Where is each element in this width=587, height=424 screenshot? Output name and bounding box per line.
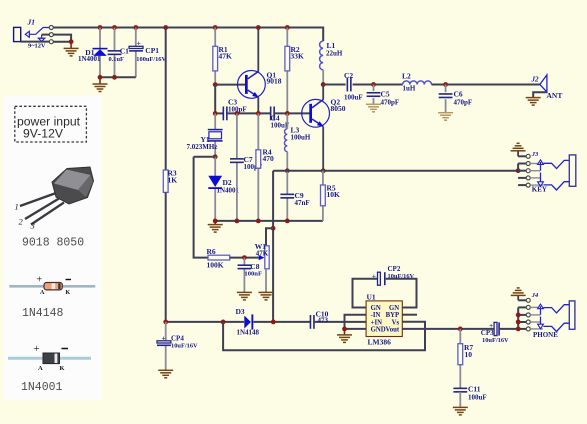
svg-text:100uH: 100uH (291, 134, 311, 142)
svg-text:10uF/16V: 10uF/16V (171, 343, 198, 350)
svg-text:+: + (37, 275, 43, 286)
junction J4 pin3 (516, 313, 521, 318)
connector J1 pin 2 (49, 33, 53, 37)
svg-text:J4: J4 (531, 292, 539, 299)
resistor R5 pins (322, 171, 324, 221)
wire ground stub U1 (344, 329, 346, 335)
wire J1 sleeve (21, 41, 50, 43)
ground at J3 (511, 143, 526, 151)
svg-text:1N4001: 1N4001 (21, 381, 63, 394)
wire BYP stub (402, 314, 417, 316)
svg-text:J3: J3 (531, 151, 539, 158)
svg-text:9V-12V: 9V-12V (23, 127, 64, 141)
wire W1 top to tap (266, 228, 273, 246)
ground at C8 (237, 292, 252, 300)
diode D2 (208, 176, 222, 189)
wire GND pin (345, 328, 367, 330)
resistor R4 pins (257, 113, 259, 220)
junction R2 L3 (285, 111, 290, 116)
svg-text:473: 473 (318, 316, 329, 324)
svg-text:3: 3 (30, 221, 35, 231)
capacitor C1 (108, 51, 122, 55)
svg-text:9018: 9018 (267, 77, 282, 86)
connector J3 pin 3 (526, 169, 530, 173)
wire J1 pin2 stub (42, 34, 50, 36)
capacitor C9 (280, 194, 294, 198)
wire C2 to L2 (353, 84, 403, 86)
svg-text:47K: 47K (219, 52, 233, 61)
wire C10 to +IN (314, 321, 366, 323)
capacitor CP4 pins (165, 322, 167, 370)
svg-text:100uF/16V: 100uF/16V (136, 56, 166, 63)
svg-text:470pF: 470pF (381, 99, 400, 107)
svg-text:1uH: 1uH (403, 85, 416, 93)
polarity - 1N4001 (62, 348, 69, 350)
ground at antenna (526, 98, 541, 106)
connector J1 pin 1 (49, 26, 53, 30)
op-amp U1 LM386 body (366, 301, 402, 337)
svg-text:100nF: 100nF (244, 270, 262, 277)
capacitor C11 (453, 388, 467, 392)
wire C3 to C4 (228, 112, 270, 114)
crystal Y1 pins (214, 113, 216, 156)
connector J3 pin 5 (526, 183, 530, 187)
svg-text:C6: C6 (454, 90, 463, 99)
wire ground stub (70, 42, 72, 49)
connector J4 pin 3 (526, 313, 530, 317)
connector J3 pin 4 (526, 176, 530, 180)
junction C8 W1 wiper (242, 255, 247, 260)
svg-text:PHONE: PHONE (533, 331, 558, 339)
inductor L1 bottom pin (322, 70, 324, 85)
svg-text:10uF/16V: 10uF/16V (388, 273, 415, 280)
resistor R4 (256, 150, 261, 168)
junction L1 C2 Q2 collector (321, 82, 326, 87)
svg-text:470: 470 (263, 154, 275, 163)
diode D2 pins (214, 157, 216, 221)
junction C7 bottom (235, 219, 240, 224)
transistor Q2 collector pin (322, 85, 324, 100)
wire VCC to R3 (165, 28, 167, 171)
capacitor C1 pins (114, 28, 116, 78)
junction J4 pin4 (516, 320, 521, 325)
junction top rail D1 (98, 25, 103, 30)
svg-text:10uF/16V: 10uF/16V (482, 337, 509, 344)
svg-text:7.023MHz: 7.023MHz (187, 143, 218, 151)
connector J3 ground wire (517, 151, 519, 156)
wire CP2 to GN8 (386, 279, 417, 308)
ground at J1 (64, 48, 79, 56)
inductor L2 (403, 81, 432, 85)
capacitor C11 bottom pin (459, 392, 461, 407)
junction top rail C1 (112, 25, 117, 30)
svg-text:-IN: -IN (371, 312, 381, 319)
transistor Q2 emitter pin (322, 127, 324, 171)
svg-text:Vs: Vs (392, 319, 400, 326)
svg-text:100uF: 100uF (344, 94, 363, 102)
wire J4 pin1 stub (518, 299, 526, 301)
capacitor C8 pins (243, 258, 245, 293)
svg-text:10: 10 (465, 350, 473, 359)
capacitor C2 (347, 78, 351, 92)
ground at C5 (366, 104, 381, 112)
svg-text:1N4001: 1N4001 (78, 55, 101, 63)
wire R3 to audio rail (165, 192, 167, 322)
junction J3 tip (516, 168, 521, 173)
wire J1 pin3 to ground node (53, 41, 71, 43)
capacitor CP2 polarized (378, 272, 385, 285)
polarity - 1N4148 (66, 279, 72, 281)
photo 1N4148 body (44, 283, 62, 290)
connector J4 pin 5 (526, 327, 530, 331)
photo TO-92 package body (52, 167, 94, 204)
svg-text:L2: L2 (402, 72, 411, 81)
ground at bias rail (208, 225, 223, 233)
svg-text:47nF: 47nF (295, 199, 310, 207)
wire Vout (402, 328, 494, 330)
svg-text:CP1: CP1 (145, 46, 159, 55)
connector J4 pin 2 (526, 305, 530, 309)
resistor R1 (213, 46, 218, 71)
connector J3 body (569, 155, 576, 186)
transistor Q1 collector pin (257, 28, 259, 72)
junction D2 ground rail (213, 219, 218, 224)
resistor R7 (458, 344, 463, 365)
transistor Q1 (238, 71, 266, 99)
junction Q2 emitter key rail (321, 168, 326, 173)
potentiometer W1 (265, 246, 269, 269)
svg-text:9~12V: 9~12V (28, 42, 46, 49)
wire CP3 to J4 (500, 328, 518, 330)
wire J1 pin2 to ground node (53, 35, 71, 42)
dashed note box power input (15, 106, 87, 142)
svg-text:J1: J1 (27, 18, 36, 27)
svg-text:47K: 47K (256, 249, 269, 257)
capacitor C3 (223, 107, 227, 121)
wire audio rail left (166, 321, 244, 323)
svg-text:GN: GN (371, 305, 381, 312)
svg-text:GN: GN (389, 305, 399, 312)
wire Y1 node left (194, 156, 216, 158)
capacitor C6 pins (445, 85, 447, 113)
svg-text:470pF: 470pF (454, 98, 473, 106)
wire J3 pin3 stub (518, 170, 526, 172)
junction C3 left (213, 111, 218, 116)
diode D1 pins (99, 28, 101, 78)
svg-text:K: K (66, 290, 71, 296)
svg-text:CP4: CP4 (171, 335, 184, 343)
wire key rail down to audio rail (272, 171, 274, 322)
capacitor CP1 pins (135, 28, 137, 78)
photo 1N4001 body (43, 353, 60, 364)
junction top rail R1 (213, 25, 218, 30)
wire J4 pin5 stub (518, 328, 526, 330)
svg-text:A: A (38, 365, 43, 372)
diode D1 (93, 48, 108, 56)
component photos panel (4, 96, 102, 401)
svg-text:+: + (162, 334, 166, 343)
junction top rail R3 branch (163, 25, 168, 30)
inductor L1 (320, 41, 324, 70)
junction W1 tap (271, 226, 276, 231)
junction C5 top (371, 82, 376, 87)
svg-text:C2: C2 (344, 71, 353, 80)
connector J3 pin 2 (526, 162, 530, 166)
wire VCC top rail (53, 28, 323, 42)
inductor L3 (284, 129, 287, 152)
svg-text:CP2: CP2 (388, 265, 401, 273)
wire L2 to antenna (432, 84, 540, 86)
transistor Q2 (302, 99, 330, 127)
junction CP4 (163, 320, 168, 325)
wire C4 to Q2 base (275, 112, 310, 114)
junction volume to audio rail (271, 320, 276, 325)
ground at W1 (259, 292, 274, 300)
svg-text:0.1uF: 0.1uF (109, 56, 125, 63)
wire antenna to ground (533, 92, 547, 97)
junction top rail Q1 collector (256, 25, 261, 30)
capacitor CP4 polarized (157, 341, 171, 346)
junction Vs feed (221, 320, 226, 325)
wire Vs supply loop (223, 322, 425, 351)
svg-text:C5: C5 (381, 90, 390, 99)
wire R6 to W1 wiper (230, 257, 259, 259)
junction top rail R2 (285, 25, 290, 30)
svg-text:+: + (137, 38, 141, 47)
wire down to R6 (194, 157, 208, 258)
wire J3 pin2 stub (518, 163, 526, 165)
wire J4 pin4 stub (518, 321, 526, 323)
ground at J4 (511, 288, 526, 296)
svg-text:1: 1 (15, 202, 19, 212)
inductor L3 pins (286, 113, 288, 170)
svg-text:100K: 100K (207, 261, 224, 270)
connector J4 ground wire (517, 296, 519, 301)
wire input filter bottom (100, 76, 136, 78)
svg-text:BYP: BYP (386, 312, 400, 319)
inductor L1 lead (322, 40, 324, 42)
junction J4 pin5 (516, 327, 521, 332)
transistor Q1 emitter pin (257, 98, 259, 114)
crystal Y1 (208, 130, 223, 141)
capacitor C7 pins (236, 113, 238, 220)
ground at CP4 (158, 370, 173, 378)
wire J3 pin4 stub (518, 177, 526, 179)
svg-text:1N4148: 1N4148 (22, 307, 64, 320)
connector J3 contacts (530, 160, 569, 190)
resistor R7 pins (459, 329, 461, 388)
wire D3 to C10 (253, 321, 310, 323)
capacitor CP3 polarized (494, 322, 499, 335)
wire bias rail (215, 220, 323, 222)
wire J3 pin2-pin3 tie (517, 164, 519, 171)
connector J4 pin 4 (526, 320, 530, 324)
ground at U1 (337, 335, 352, 343)
junction R4 bottom (256, 219, 261, 224)
svg-text:9018 8050: 9018 8050 (22, 237, 84, 250)
svg-text:100uF: 100uF (468, 393, 487, 401)
svg-text:1N4148: 1N4148 (237, 329, 260, 337)
svg-text:R6: R6 (207, 247, 216, 256)
connector J3 pin 1 (526, 154, 530, 158)
svg-text:U1: U1 (367, 293, 376, 302)
junction L3 C9 key rail (285, 168, 290, 173)
wire Q2 collector to C2 (323, 84, 345, 86)
svg-text:K: K (60, 365, 65, 372)
connector J1 switch contact (38, 35, 45, 42)
svg-text:KEY: KEY (532, 185, 547, 193)
wire R1 to Q1 base (215, 84, 246, 86)
connector J4 contacts (530, 304, 569, 331)
capacitor C9 pins (286, 171, 288, 221)
junction top rail CP1 (133, 25, 138, 30)
wire -IN to ground node (345, 315, 367, 329)
svg-text:1K: 1K (168, 176, 178, 185)
wire J4 pin2 stub (518, 306, 526, 308)
resistor R1 pins (214, 28, 216, 85)
connector J4 body (569, 301, 575, 329)
junction J1 ground node (69, 39, 74, 44)
capacitor CP1 polarized (129, 46, 143, 51)
wire ground stub D1 (99, 77, 101, 84)
svg-text:+: + (372, 272, 376, 281)
junction C6 top (443, 82, 448, 87)
svg-text:A: A (40, 290, 45, 296)
junction C1 bottom (112, 75, 117, 80)
capacitor C6 (439, 94, 453, 98)
svg-text:ANT: ANT (547, 91, 563, 100)
svg-text:10K: 10K (327, 190, 341, 199)
resistor R6 (208, 255, 230, 260)
potentiometer W1 bottom pin (265, 269, 267, 292)
antenna J2 (540, 75, 547, 92)
connector J1 barrel (14, 27, 21, 41)
svg-text:Vout: Vout (385, 326, 399, 333)
junction -IN GND (342, 327, 347, 332)
svg-text:33K: 33K (291, 52, 305, 61)
wire J4 pin3 stub (518, 314, 526, 316)
wire GN1 to CP2 (353, 279, 378, 308)
photo 1N4148 lead (9, 285, 95, 288)
svg-text:C1: C1 (120, 47, 129, 56)
wire base node down to C3 (214, 85, 216, 114)
photo 1N4001 lead (8, 357, 91, 360)
wire key rail (273, 170, 518, 172)
svg-text:D3: D3 (236, 307, 245, 316)
connector J4 pin 1 (526, 298, 530, 302)
ground at C11 (453, 407, 468, 415)
diode D3 (244, 314, 253, 329)
ground at input filter (93, 84, 108, 92)
svg-text:C11: C11 (468, 385, 481, 394)
resistor R2 (285, 46, 290, 71)
junction R1 base node (213, 82, 218, 87)
capacitor C5 pins (373, 85, 375, 105)
capacitor C10 (310, 315, 314, 329)
svg-text:LM386: LM386 (368, 338, 392, 347)
junction R7 top (458, 327, 463, 332)
wire J3 pin1 stub (518, 155, 526, 157)
resistor R2 pins (286, 28, 288, 114)
photo TO-92 leads (20, 193, 64, 225)
junction D1 ground (98, 75, 103, 80)
connector J1 pin 3 (49, 40, 53, 44)
wire J3 pin5 stub (518, 184, 526, 186)
capacitor C7 (230, 159, 244, 163)
capacitor C4 (271, 107, 275, 121)
capacitor C5 (367, 93, 381, 97)
svg-text:8050: 8050 (331, 104, 346, 113)
svg-text:J2: J2 (531, 76, 540, 84)
svg-text:+: + (34, 343, 40, 355)
svg-text:GND: GND (371, 326, 386, 333)
svg-text:+IN: +IN (371, 319, 383, 326)
ground at C6 (438, 113, 453, 121)
junction Q1 emitter R4 (256, 111, 261, 116)
junction Y1 D2 R6 (213, 154, 218, 159)
junction C9 bottom (285, 219, 290, 224)
potentiometer W1 wiper arrow (259, 255, 265, 260)
resistor R3 (163, 170, 168, 192)
capacitor C8 (238, 265, 252, 268)
wire J4 pins tie (517, 307, 519, 329)
junction C7 top (235, 111, 240, 116)
wire ground stub bias rail (214, 221, 216, 225)
resistor R5 (321, 185, 326, 206)
wire to C3 (215, 112, 223, 114)
connector J1 tip contact (25, 28, 49, 38)
svg-text:22uH: 22uH (326, 50, 343, 58)
